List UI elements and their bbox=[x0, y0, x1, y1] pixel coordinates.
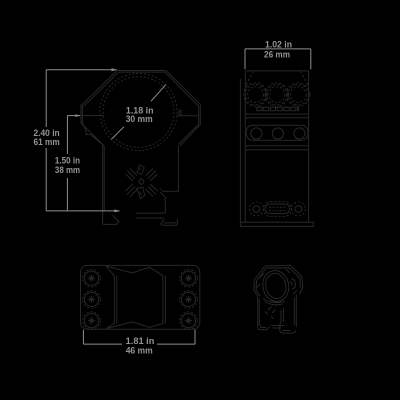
right chamfer detail bbox=[160, 188, 163, 191]
middle saddle bbox=[114, 276, 117, 324]
octagon cap outer bbox=[265, 265, 303, 294]
center slot bbox=[263, 202, 291, 217]
svg-text:1.81 in: 1.81 in bbox=[126, 336, 155, 346]
bore circle inner (dashed) bbox=[103, 77, 174, 148]
corner chamfers bbox=[246, 71, 254, 85]
cap facet details bbox=[259, 274, 264, 279]
right foot bbox=[280, 322, 296, 333]
body left edge bbox=[257, 297, 259, 327]
bore circle outer (dashed) bbox=[100, 73, 177, 150]
leader 1.18 bbox=[151, 85, 166, 102]
split line right bbox=[177, 115, 199, 117]
lower block top lines bbox=[245, 145, 308, 147]
screw counterbore dashed circles bbox=[244, 83, 267, 106]
horizontals bbox=[245, 113, 308, 115]
dim 2.40 extension top bbox=[46, 69, 116, 71]
screw heads dashed circles bbox=[245, 84, 265, 104]
svg-text:38 mm: 38 mm bbox=[55, 165, 80, 175]
bore ellipse outer bbox=[260, 268, 292, 304]
left shoulder bbox=[81, 123, 103, 145]
outline bbox=[245, 70, 308, 72]
inner body verticals bbox=[280, 310, 282, 322]
left foot claw bbox=[258, 327, 270, 330]
svg-text:26 mm: 26 mm bbox=[264, 49, 290, 59]
cap inner line bbox=[119, 72, 199, 106]
torx patterns bbox=[88, 275, 192, 325]
bottom bar bbox=[241, 222, 314, 226]
plate bbox=[246, 125, 308, 140]
dim 1.50 extension top bbox=[67, 115, 80, 117]
cap outline bbox=[117, 71, 200, 105]
split line left bbox=[80, 115, 103, 117]
rail lines bbox=[136, 212, 166, 214]
body right edge bbox=[295, 295, 297, 328]
dim 2.40 line bbox=[45, 70, 47, 127]
svg-text:1.02 in: 1.02 in bbox=[265, 39, 292, 49]
bottom detail circles bbox=[249, 202, 263, 216]
dim 1.50 line bbox=[66, 116, 68, 154]
logo squiggle bbox=[265, 307, 276, 320]
octagon cap inner bbox=[266, 268, 301, 288]
thread dashes row bbox=[257, 107, 299, 111]
bottom arc of ring bbox=[263, 299, 285, 303]
dim 1.81 bbox=[83, 330, 195, 344]
cap right details bbox=[292, 279, 296, 290]
left outer jaw line bbox=[239, 79, 241, 222]
dim 1.02 bbox=[245, 49, 311, 69]
svg-text:30 mm: 30 mm bbox=[126, 114, 153, 124]
dim 2.40 / 1.50 extension bottom bbox=[46, 210, 119, 212]
svg-text:61 mm: 61 mm bbox=[33, 137, 59, 147]
left stem bbox=[103, 145, 119, 224]
right side bbox=[180, 104, 200, 146]
right foot bbox=[161, 219, 177, 225]
vortex logo bbox=[126, 165, 158, 199]
center base lines bbox=[271, 325, 285, 327]
screws left col bbox=[83, 269, 101, 329]
svg-text:46 mm: 46 mm bbox=[126, 346, 153, 356]
screws right col bbox=[180, 269, 198, 329]
bore ellipse inner bbox=[263, 271, 288, 300]
